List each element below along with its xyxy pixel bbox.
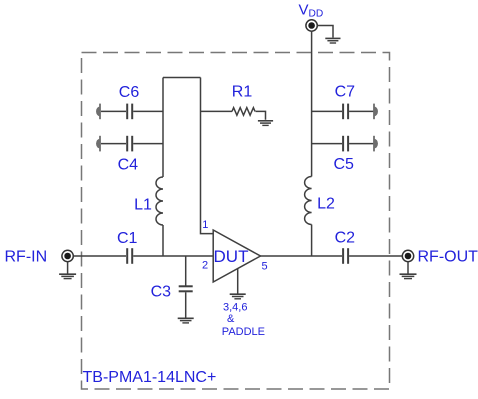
wire VDD feed (down to L2) xyxy=(311,31,313,176)
wire C3 stem xyxy=(185,256,187,286)
svg-text:C1: C1 xyxy=(117,230,138,247)
connector VDD xyxy=(306,20,317,31)
svg-text:C3: C3 xyxy=(151,283,172,300)
wire C3 to ground xyxy=(185,292,187,317)
svg-text:C2: C2 xyxy=(335,230,356,247)
capacitor C7 xyxy=(343,104,348,120)
wire node to R1 xyxy=(201,110,233,112)
inductor L1 xyxy=(156,177,163,225)
svg-text:R1: R1 xyxy=(232,84,253,101)
capacitor C6 xyxy=(127,104,132,120)
wire C6 to node xyxy=(133,110,163,112)
wire C5 to port xyxy=(349,143,374,145)
wire DUT to ground xyxy=(237,269,239,294)
svg-text:C4: C4 xyxy=(118,156,139,173)
ground (VDD) xyxy=(325,38,340,43)
svg-text:C5: C5 xyxy=(333,156,354,173)
wire R1 to ground xyxy=(256,111,266,119)
inductor L2 xyxy=(305,177,312,225)
svg-text:1: 1 xyxy=(202,219,208,231)
terminal (C7 port) xyxy=(374,104,378,120)
capacitor C5 xyxy=(343,136,348,152)
svg-text:DUT: DUT xyxy=(214,247,249,266)
ground (R1) xyxy=(258,121,273,126)
terminal (C6 port) xyxy=(96,104,100,120)
resistor R1 xyxy=(232,108,255,116)
svg-text:&: & xyxy=(227,313,235,325)
wire pin 5 to C2 xyxy=(261,255,343,257)
connector RF-IN xyxy=(62,250,73,261)
ground (DUT pins 3,4,6) xyxy=(230,294,246,299)
wire port to C4 xyxy=(101,143,126,145)
terminal (C4 port) xyxy=(96,136,100,152)
wire RF-IN to C1 xyxy=(73,255,126,257)
wire RF-OUT stem xyxy=(407,262,409,274)
wire bias node top xyxy=(163,77,201,79)
svg-text:3,4,6: 3,4,6 xyxy=(223,302,247,314)
svg-text:L1: L1 xyxy=(134,197,152,214)
wire C1 to pin 2 xyxy=(133,255,213,257)
ground (C3) xyxy=(178,318,194,323)
connector RF-OUT xyxy=(402,250,413,261)
svg-text:2: 2 xyxy=(202,260,208,272)
wire RF-IN stem xyxy=(67,262,69,274)
ground (RF-OUT) xyxy=(400,274,417,278)
wire VDD node to C7 xyxy=(312,110,342,112)
svg-text:TB-PMA1-14LNC+: TB-PMA1-14LNC+ xyxy=(83,369,217,386)
svg-text:C7: C7 xyxy=(335,84,356,101)
svg-text:PADDLE: PADDLE xyxy=(222,326,265,338)
svg-text:5: 5 xyxy=(262,261,268,273)
svg-text:C6: C6 xyxy=(119,84,140,101)
svg-text:RF-IN: RF-IN xyxy=(5,249,48,266)
wire C4 to node xyxy=(133,143,163,145)
wire VDD node to C5 xyxy=(312,143,342,145)
op-amp DUT xyxy=(213,230,260,282)
wire L1 to RF line xyxy=(162,225,164,256)
board outline (dashed) xyxy=(82,53,390,390)
capacitor C3 xyxy=(179,286,193,291)
wire VDD to ground xyxy=(317,26,333,38)
wire bias node left branch xyxy=(162,78,164,178)
wire C2 to RF-OUT xyxy=(349,255,402,257)
capacitor C4 xyxy=(127,136,132,152)
wire C7 to port xyxy=(349,110,374,112)
wire bias node right branch (to pin 1) xyxy=(201,78,214,234)
capacitor C1 xyxy=(127,248,132,264)
capacitor C2 xyxy=(343,248,348,264)
wire L2 to RF line xyxy=(311,225,313,257)
svg-text:L2: L2 xyxy=(317,196,335,213)
terminal (C5 port) xyxy=(374,136,378,152)
svg-text:RF-OUT: RF-OUT xyxy=(418,249,478,266)
ground (RF-IN) xyxy=(59,274,76,278)
svg-text:VDD: VDD xyxy=(299,1,324,19)
wire port to C6 xyxy=(101,110,126,112)
